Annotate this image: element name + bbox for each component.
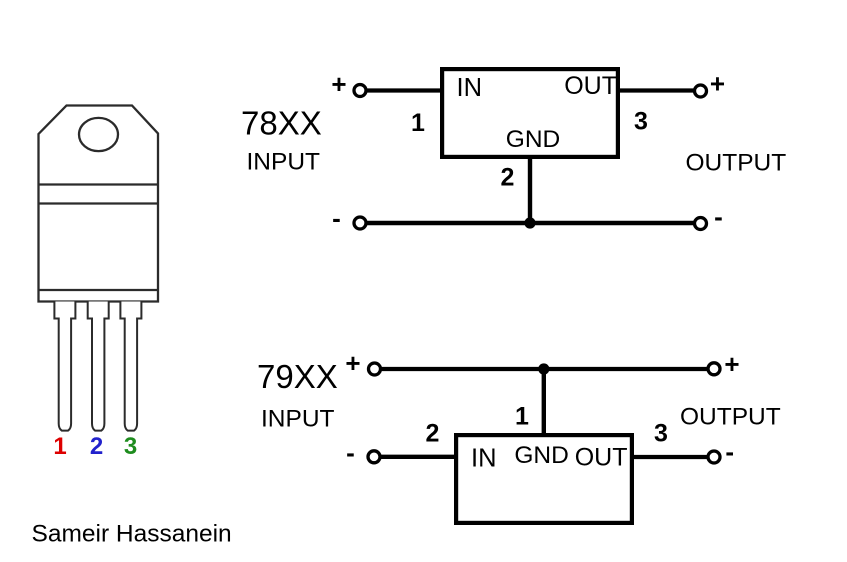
svg-text:IN: IN (471, 445, 497, 473)
TO-220 package body outline (39, 106, 159, 302)
TO-220 mounting hole (79, 118, 118, 151)
svg-text:GND: GND (514, 442, 568, 469)
TO-220 leg pin 1 (54, 302, 75, 431)
wire OUT pin to output terminal (78XX) (618, 88, 694, 92)
wire input to IN pin (78XX) (367, 88, 442, 92)
svg-text:OUTPUT: OUTPUT (680, 404, 781, 431)
junction dot (78XX) (524, 217, 535, 228)
svg-text:OUT: OUT (575, 444, 628, 472)
svg-text:+: + (724, 349, 739, 379)
regulator box U2 79XX (456, 435, 632, 523)
svg-text:INPUT: INPUT (261, 406, 335, 433)
terminal circle 79XX output - (708, 451, 720, 463)
svg-text:OUT: OUT (564, 72, 617, 100)
svg-text:Sameir Hassanein: Sameir Hassanein (32, 521, 232, 548)
svg-text:+: + (331, 69, 346, 99)
svg-text:1: 1 (411, 109, 425, 137)
top common wire (79XX) (382, 367, 709, 371)
svg-text:+: + (345, 348, 360, 378)
svg-text:GND: GND (506, 126, 560, 153)
svg-text:79XX: 79XX (257, 358, 338, 395)
TO-220 tab line 1 (39, 183, 159, 185)
terminal circle 78XX output + (695, 85, 707, 97)
terminal circle 78XX input - (354, 217, 366, 229)
TO-220 tab line 2 (39, 202, 159, 204)
svg-text:2: 2 (426, 420, 440, 448)
terminal circle 79XX input + (369, 363, 381, 375)
svg-text:IN: IN (457, 74, 483, 102)
svg-text:-: - (714, 202, 723, 232)
GND stub wire (79XX) (542, 369, 546, 435)
svg-text:1: 1 (515, 403, 529, 431)
terminal circle 78XX output - (695, 218, 707, 230)
svg-text:-: - (346, 438, 355, 468)
svg-text:3: 3 (634, 108, 648, 136)
TO-220 bottom edge line (39, 289, 159, 291)
svg-text:78XX: 78XX (241, 105, 322, 142)
bottom common wire (78XX) (366, 221, 694, 225)
TO-220 leg pin 3 (120, 302, 141, 431)
wire input to IN pin (79XX) (381, 455, 456, 459)
svg-text:3: 3 (654, 420, 668, 448)
svg-text:INPUT: INPUT (247, 149, 321, 176)
TO-220 leg pin 2 (88, 302, 109, 431)
terminal circle 79XX output + (708, 363, 720, 375)
svg-text:1: 1 (53, 433, 66, 460)
svg-text:2: 2 (501, 164, 515, 192)
regulator box U1 78XX (442, 69, 618, 157)
svg-text:-: - (332, 203, 341, 233)
GND stub wire (78XX) (528, 157, 532, 223)
junction dot (79XX) (538, 363, 549, 374)
terminal circle 79XX input - (368, 451, 380, 463)
wire OUT pin to output terminal (79XX) (632, 455, 708, 459)
svg-text:+: + (710, 69, 725, 99)
svg-text:2: 2 (90, 433, 103, 460)
svg-text:-: - (725, 437, 734, 467)
terminal circle 78XX input + (354, 85, 366, 97)
svg-text:OUTPUT: OUTPUT (686, 150, 787, 177)
svg-text:3: 3 (124, 433, 137, 460)
